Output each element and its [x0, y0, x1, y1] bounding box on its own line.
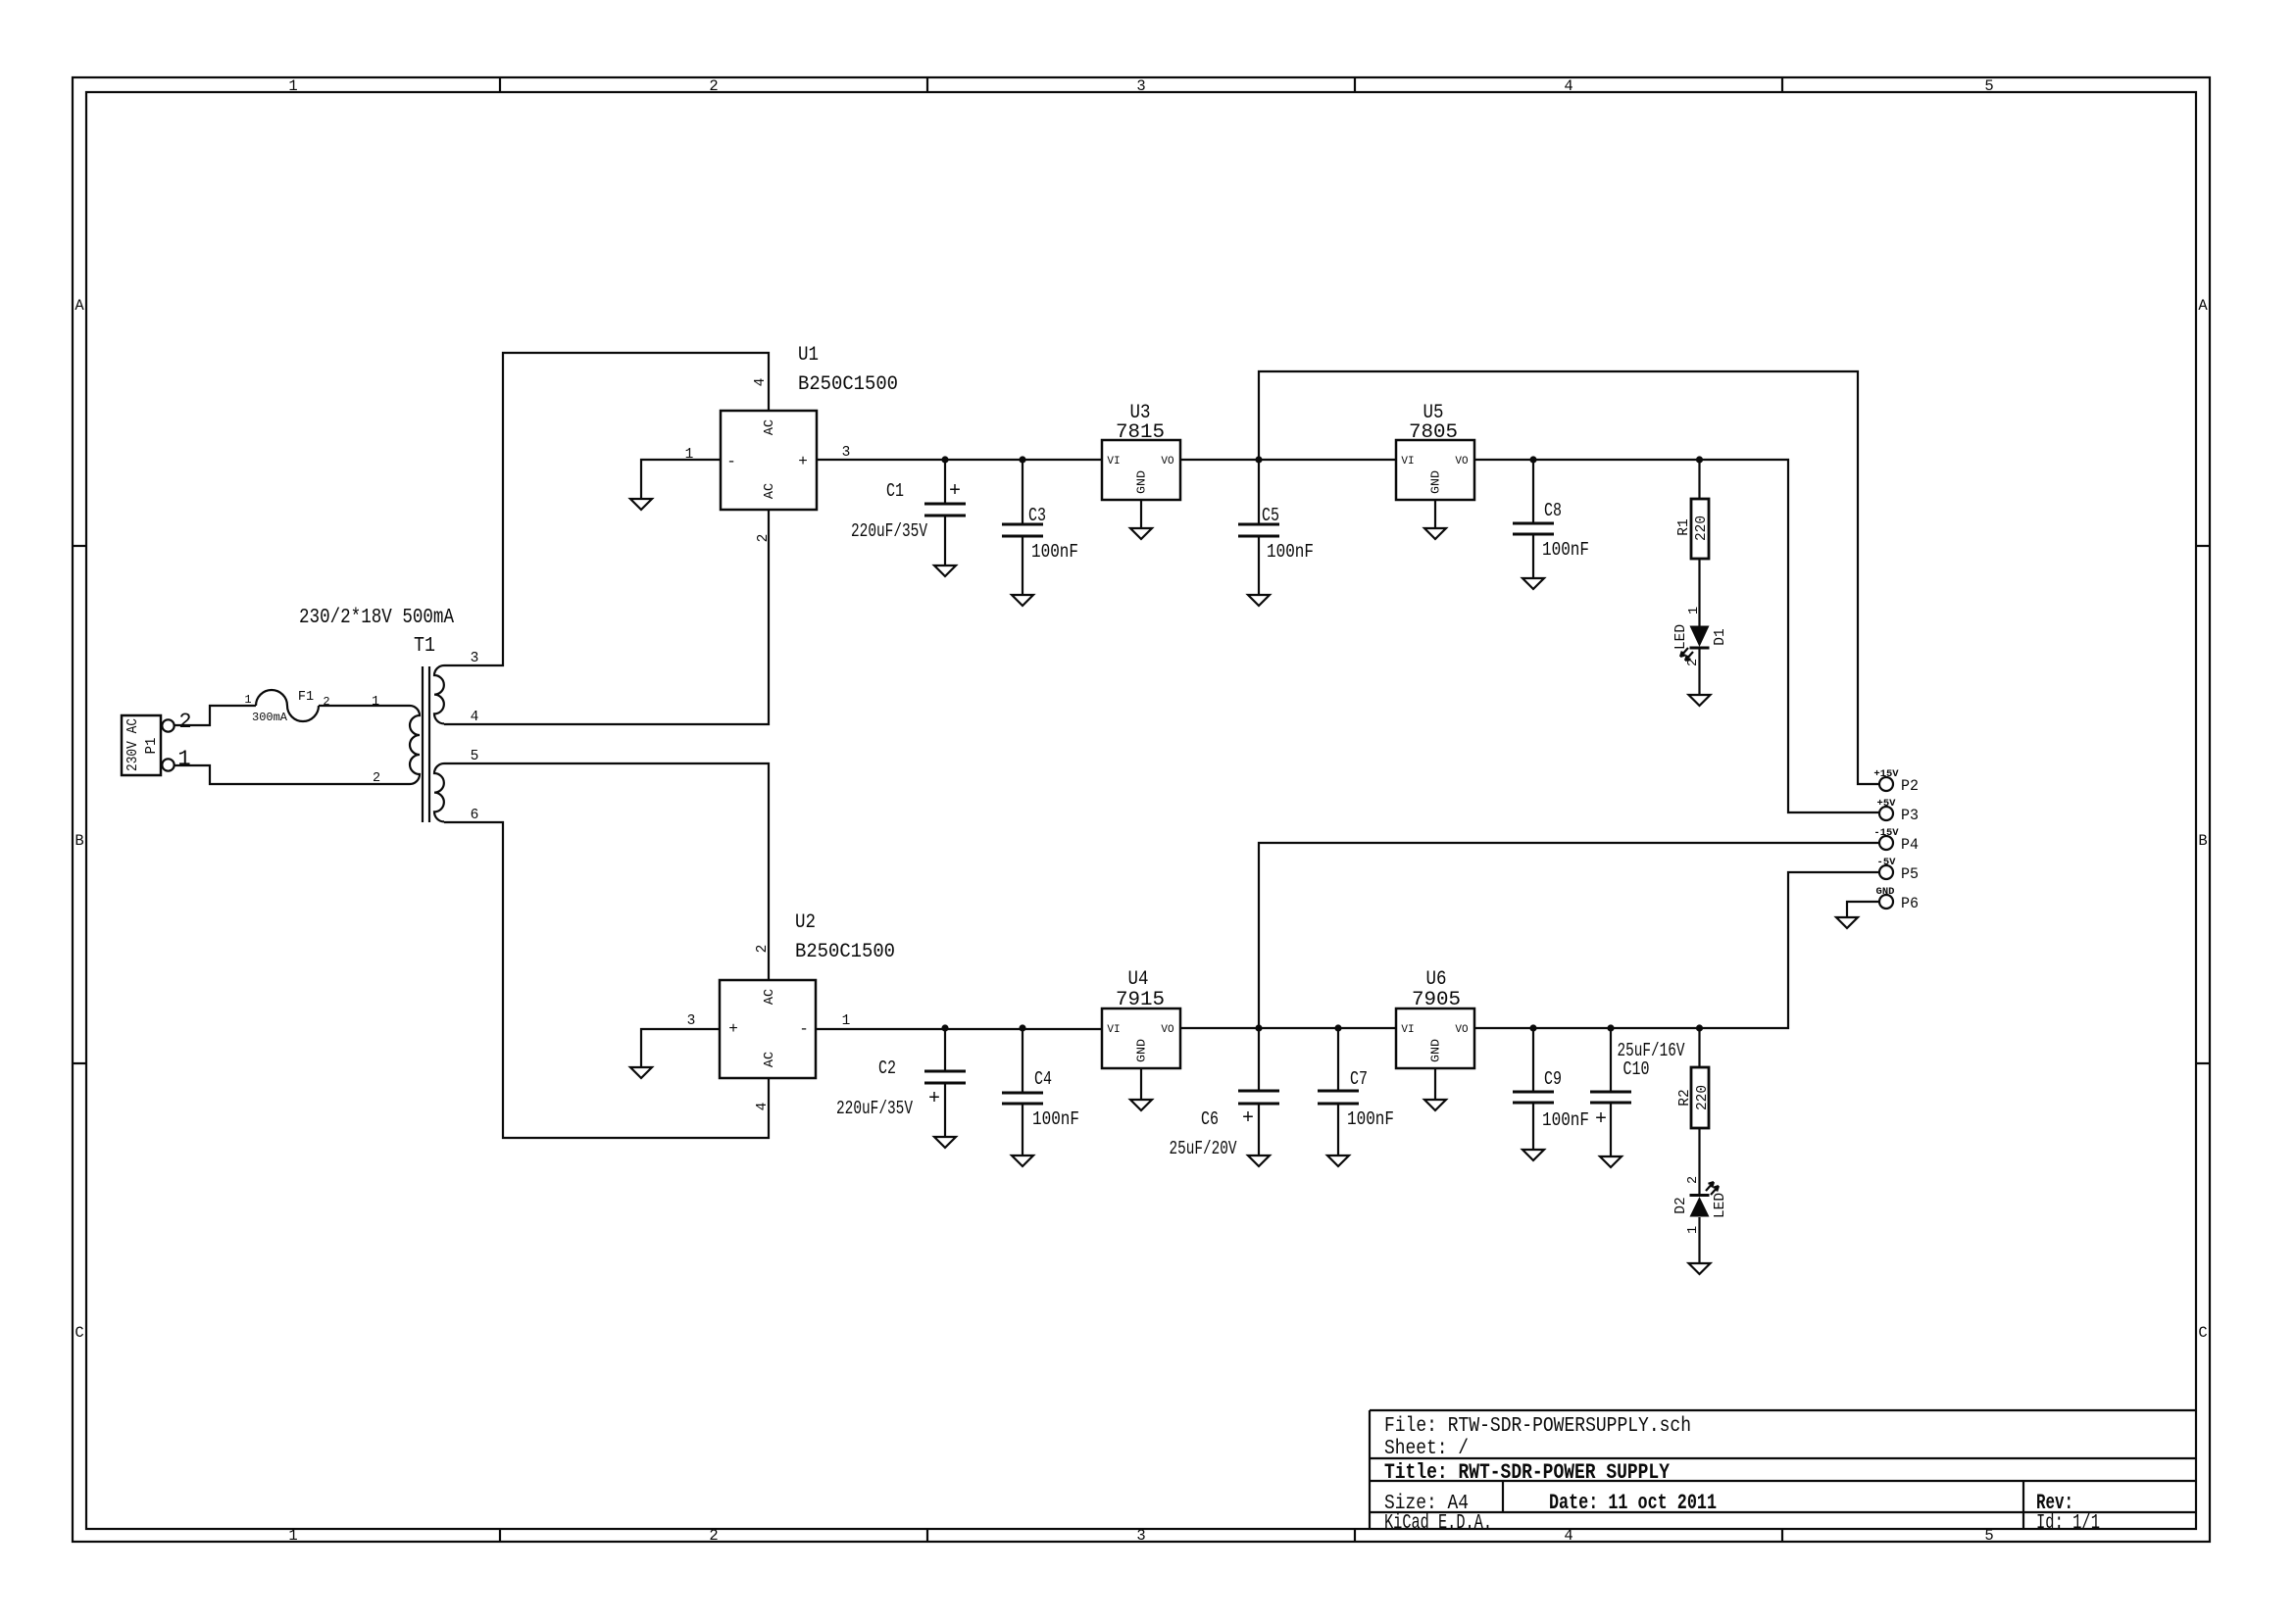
svg-text:230/2*18V 500mA: 230/2*18V 500mA: [299, 607, 454, 629]
svg-text:AC: AC: [763, 1052, 777, 1067]
svg-text:GND: GND: [1876, 886, 1895, 898]
svg-text:U4: U4: [1128, 968, 1149, 991]
svg-text:AC: AC: [763, 989, 777, 1005]
svg-text:C4: C4: [1034, 1068, 1052, 1090]
svg-text:220uF/35V: 220uF/35V: [851, 520, 927, 542]
svg-text:1: 1: [288, 77, 297, 95]
svg-text:+: +: [1595, 1108, 1607, 1131]
svg-text:7815: 7815: [1116, 421, 1165, 444]
svg-text:1: 1: [1687, 607, 1702, 615]
svg-text:-: -: [799, 1020, 809, 1038]
svg-text:2: 2: [178, 710, 191, 734]
svg-text:LED: LED: [1673, 624, 1689, 650]
svg-text:C10: C10: [1623, 1058, 1650, 1080]
svg-text:F1: F1: [298, 690, 314, 705]
svg-text:Title: RWT-SDR-POWER SUPPLY: Title: RWT-SDR-POWER SUPPLY: [1384, 1460, 1671, 1485]
svg-text:A: A: [75, 297, 84, 315]
svg-text:220: 220: [1694, 516, 1710, 541]
svg-text:C9: C9: [1544, 1068, 1562, 1090]
svg-text:+: +: [1242, 1107, 1254, 1130]
svg-text:GND: GND: [1429, 1039, 1443, 1062]
svg-text:4: 4: [1564, 1527, 1572, 1545]
svg-text:GND: GND: [1135, 470, 1149, 494]
svg-text:7805: 7805: [1409, 421, 1458, 444]
svg-text:VO: VO: [1455, 456, 1469, 467]
svg-text:300mA: 300mA: [252, 711, 288, 724]
svg-text:C8: C8: [1544, 500, 1562, 521]
svg-text:GND: GND: [1135, 1039, 1149, 1062]
svg-text:A: A: [2198, 297, 2208, 315]
svg-text:C: C: [2198, 1324, 2207, 1342]
svg-text:B: B: [2198, 832, 2207, 850]
svg-text:C1: C1: [886, 480, 904, 502]
svg-text:100nF: 100nF: [1031, 541, 1078, 563]
svg-text:T1: T1: [414, 635, 435, 658]
svg-text:-15V: -15V: [1873, 827, 1899, 839]
svg-text:VI: VI: [1401, 1024, 1414, 1036]
svg-text:Id: 1/1: Id: 1/1: [2036, 1512, 2100, 1535]
svg-text:U6: U6: [1426, 968, 1447, 991]
svg-text:1: 1: [288, 1527, 297, 1545]
svg-text:R1: R1: [1676, 518, 1692, 535]
svg-text:VI: VI: [1107, 456, 1120, 467]
svg-text:1: 1: [685, 447, 694, 463]
svg-text:2: 2: [373, 771, 380, 786]
svg-text:VO: VO: [1161, 456, 1174, 467]
svg-text:AC: AC: [763, 483, 777, 499]
svg-text:VO: VO: [1455, 1024, 1469, 1036]
svg-text:2: 2: [755, 945, 771, 954]
svg-text:7915: 7915: [1116, 989, 1165, 1011]
svg-text:1: 1: [244, 693, 251, 707]
svg-text:5: 5: [1984, 1527, 1993, 1545]
svg-text:D2: D2: [1673, 1197, 1689, 1213]
svg-text:2: 2: [709, 1527, 718, 1545]
svg-text:100nF: 100nF: [1267, 541, 1314, 563]
svg-text:4: 4: [1564, 77, 1572, 95]
svg-text:AC: AC: [763, 419, 777, 435]
svg-text:-: -: [726, 453, 736, 470]
svg-text:100nF: 100nF: [1347, 1108, 1394, 1130]
svg-text:C2: C2: [878, 1057, 896, 1079]
svg-text:2: 2: [1686, 659, 1701, 666]
svg-text:C: C: [75, 1324, 83, 1342]
svg-text:P1: P1: [144, 738, 160, 755]
svg-text:2: 2: [1686, 1176, 1701, 1184]
svg-text:LED: LED: [1713, 1193, 1728, 1218]
svg-text:1: 1: [842, 1013, 851, 1029]
svg-text:+5V: +5V: [1877, 798, 1897, 810]
svg-text:1: 1: [372, 695, 379, 710]
svg-text:P2: P2: [1901, 777, 1919, 795]
svg-text:P3: P3: [1901, 807, 1919, 824]
svg-text:P4: P4: [1901, 836, 1919, 854]
svg-text:B250C1500: B250C1500: [795, 941, 895, 963]
svg-text:Date: 11 oct 2011: Date: 11 oct 2011: [1549, 1491, 1717, 1515]
svg-text:File: RTW-SDR-POWERSUPPLY.sch: File: RTW-SDR-POWERSUPPLY.sch: [1384, 1415, 1691, 1438]
svg-text:C7: C7: [1350, 1068, 1368, 1090]
svg-text:P5: P5: [1901, 865, 1919, 883]
svg-text:3: 3: [471, 651, 479, 666]
svg-text:100nF: 100nF: [1542, 1109, 1589, 1131]
svg-text:4: 4: [755, 1103, 771, 1111]
svg-text:KiCad E.D.A.: KiCad E.D.A.: [1384, 1512, 1492, 1535]
svg-text:C3: C3: [1028, 505, 1046, 526]
svg-text:VI: VI: [1401, 456, 1414, 467]
svg-text:+15V: +15V: [1873, 768, 1899, 780]
svg-text:4: 4: [471, 710, 479, 725]
svg-text:VI: VI: [1107, 1024, 1120, 1036]
svg-text:GND: GND: [1429, 470, 1443, 494]
svg-text:4: 4: [753, 378, 769, 387]
svg-text:3: 3: [687, 1013, 696, 1029]
svg-text:B: B: [75, 832, 83, 850]
svg-text:+: +: [798, 453, 808, 470]
svg-text:P6: P6: [1901, 895, 1919, 912]
svg-text:+: +: [928, 1088, 940, 1110]
svg-text:100nF: 100nF: [1542, 539, 1589, 561]
svg-text:7905: 7905: [1412, 989, 1461, 1011]
svg-text:2: 2: [323, 695, 329, 709]
svg-text:2: 2: [709, 77, 718, 95]
svg-text:5: 5: [1984, 77, 1993, 95]
svg-text:220: 220: [1695, 1085, 1711, 1110]
svg-text:+: +: [728, 1020, 738, 1038]
svg-text:D1: D1: [1713, 628, 1728, 645]
svg-text:3: 3: [1136, 1527, 1145, 1545]
svg-text:U2: U2: [795, 911, 816, 934]
svg-text:U1: U1: [798, 344, 819, 367]
svg-text:5: 5: [471, 749, 479, 764]
svg-text:Sheet: /: Sheet: /: [1384, 1438, 1469, 1460]
svg-text:C6: C6: [1201, 1108, 1219, 1130]
svg-text:1: 1: [1686, 1226, 1701, 1234]
svg-text:6: 6: [471, 808, 479, 823]
svg-text:VO: VO: [1161, 1024, 1174, 1036]
svg-text:B250C1500: B250C1500: [798, 373, 898, 396]
svg-text:2: 2: [756, 534, 772, 543]
svg-text:R2: R2: [1677, 1089, 1693, 1106]
svg-text:25uF/20V: 25uF/20V: [1170, 1138, 1237, 1159]
svg-text:230V AC: 230V AC: [125, 718, 141, 771]
svg-text:3: 3: [842, 445, 851, 461]
svg-text:220uF/35V: 220uF/35V: [836, 1098, 913, 1119]
svg-text:3: 3: [1136, 77, 1145, 95]
svg-text:1: 1: [177, 747, 190, 771]
svg-text:+: +: [949, 480, 961, 503]
svg-text:C5: C5: [1262, 505, 1279, 526]
svg-text:100nF: 100nF: [1032, 1108, 1079, 1130]
svg-text:-5V: -5V: [1877, 857, 1897, 868]
